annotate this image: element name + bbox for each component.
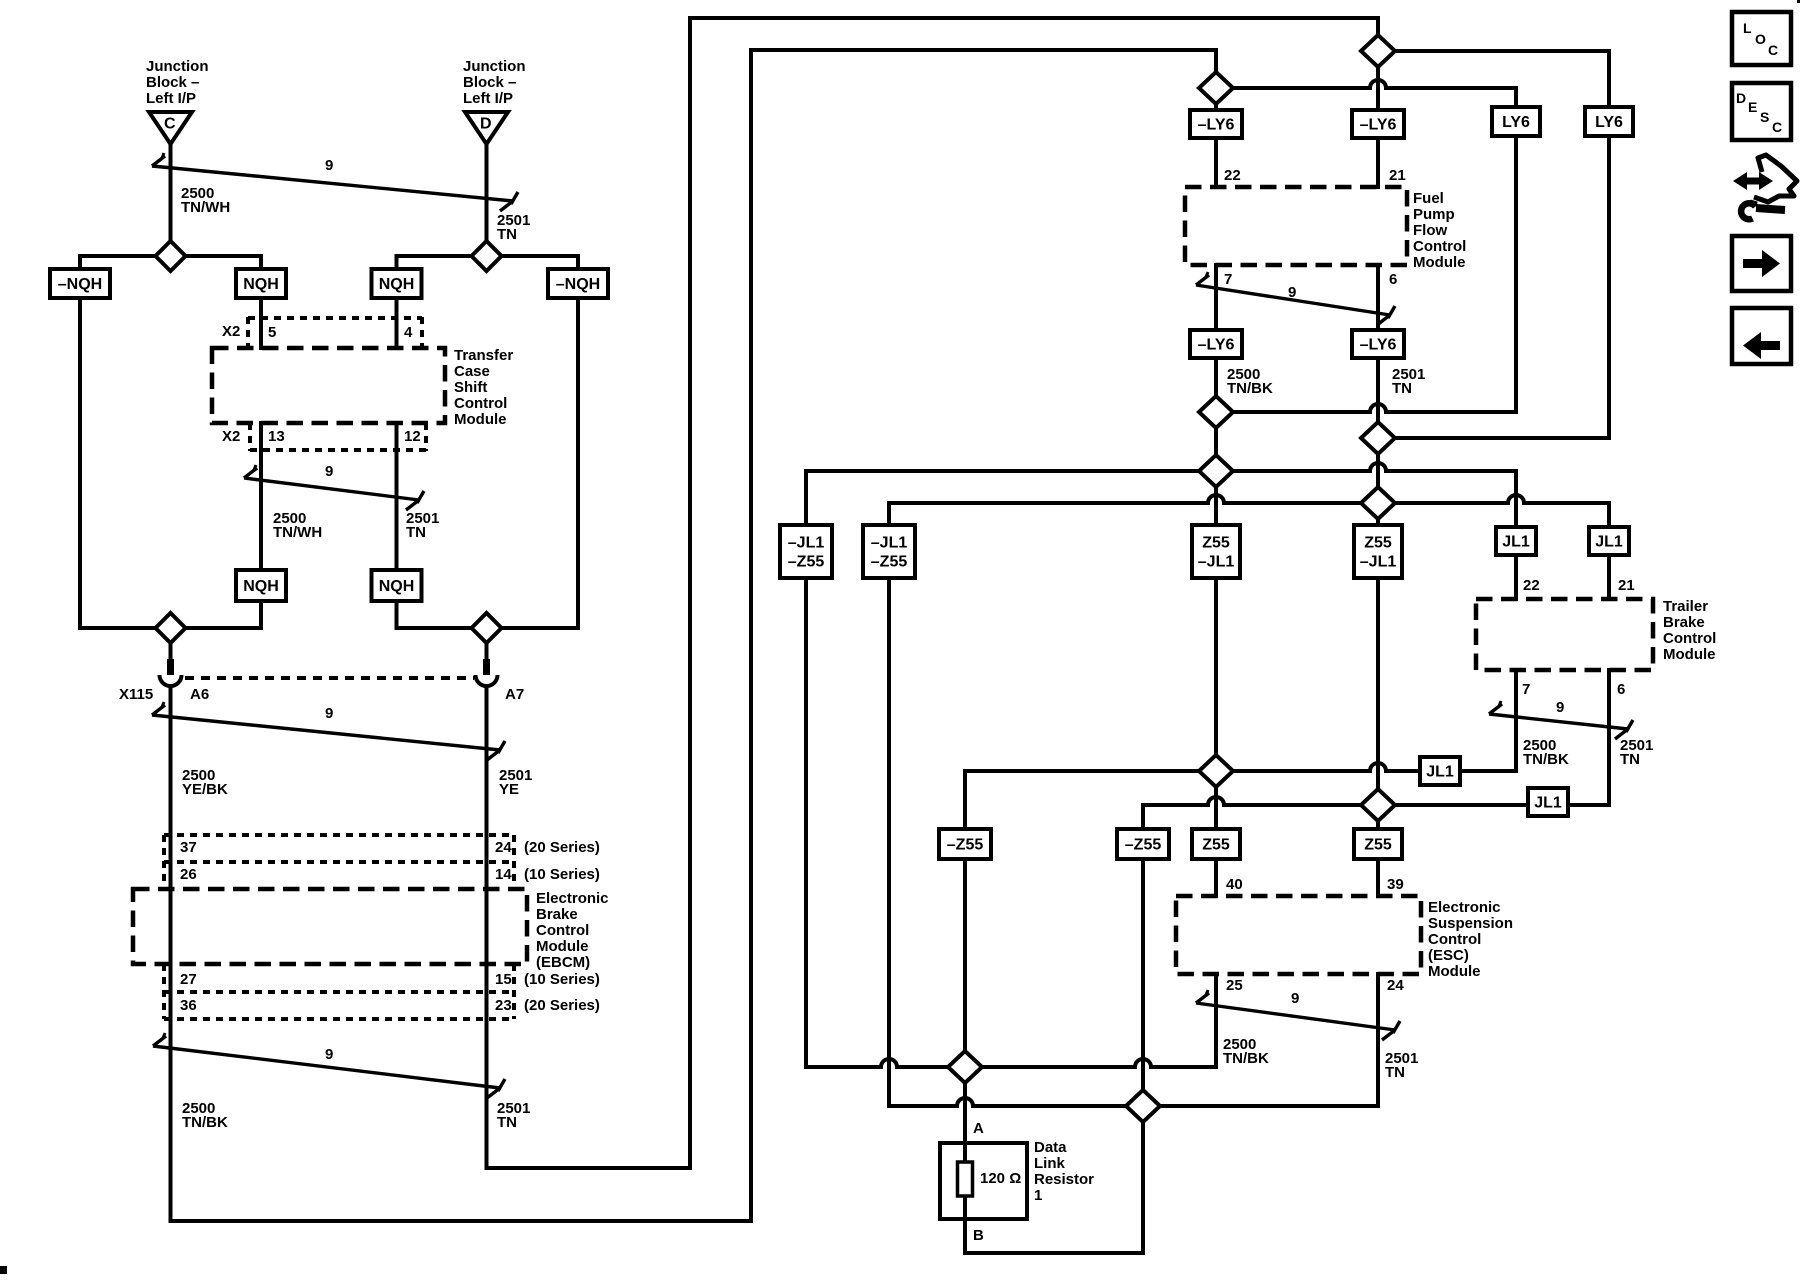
svg-text:Left I/P: Left I/P bbox=[146, 90, 196, 107]
svg-text:Control: Control bbox=[1428, 931, 1481, 948]
svg-text:Z55: Z55 bbox=[1202, 535, 1230, 552]
option box -LY6 a bbox=[1190, 110, 1242, 138]
option box NQH 2 bbox=[372, 269, 422, 298]
inline connector X115 terminal A7 bbox=[483, 659, 490, 675]
wire JL1 riser a bbox=[1514, 471, 1518, 527]
option box Z55 a bbox=[1192, 829, 1240, 859]
wire A6 down to EBCM bbox=[169, 686, 173, 1221]
svg-text:22: 22 bbox=[1523, 577, 1540, 594]
svg-text:Module: Module bbox=[1663, 646, 1716, 663]
wire Z55/JL1 a drop to Z55 bbox=[1214, 578, 1218, 829]
svg-text:9: 9 bbox=[325, 463, 333, 480]
svg-text:12: 12 bbox=[404, 428, 421, 445]
inline connector X115 terminal A6 bbox=[167, 659, 174, 675]
svg-text:Left I/P: Left I/P bbox=[463, 90, 513, 107]
svg-text:–Z55: –Z55 bbox=[947, 837, 984, 854]
twisted pair symbol 9 (ESC) bbox=[1196, 1003, 1395, 1030]
svg-text:Control: Control bbox=[1413, 238, 1466, 255]
svg-text:14: 14 bbox=[495, 866, 512, 883]
svg-text:E: E bbox=[1748, 99, 1757, 115]
svg-text:22: 22 bbox=[1224, 167, 1241, 184]
splice diamond R3 bbox=[1199, 396, 1233, 428]
wire -Z55 a drop to splice R9 bbox=[963, 859, 967, 1143]
svg-text:Shift: Shift bbox=[454, 379, 487, 396]
page corner mark top-right bbox=[1797, 0, 1800, 3]
svg-text:–LY6: –LY6 bbox=[1198, 337, 1235, 354]
svg-text:Case: Case bbox=[454, 363, 490, 380]
svg-text:120 Ω: 120 Ω bbox=[980, 1170, 1021, 1187]
back arrow button bbox=[1732, 308, 1791, 364]
electronic suspension control module box bbox=[1176, 896, 1421, 974]
wire trailer pin 7 down bbox=[1514, 670, 1518, 771]
svg-text:Electronic: Electronic bbox=[1428, 899, 1501, 916]
svg-text:26: 26 bbox=[180, 866, 197, 883]
svg-text:TN/BK: TN/BK bbox=[1223, 1050, 1269, 1067]
splice diamond R1 bbox=[1361, 35, 1395, 67]
option box -LY6 d bbox=[1352, 330, 1404, 358]
svg-text:A7: A7 bbox=[505, 686, 524, 703]
wire NQH2 to transfer case pin 4 bbox=[395, 298, 399, 348]
option box -JL1 -Z55 b bbox=[863, 525, 915, 578]
svg-text:Flow: Flow bbox=[1413, 222, 1447, 239]
svg-text:YE/BK: YE/BK bbox=[182, 781, 228, 798]
wire bus y805 bbox=[1143, 803, 1208, 807]
junction block triangle C bbox=[149, 112, 192, 144]
svg-text:Control: Control bbox=[1663, 630, 1716, 647]
wire ESC pin 25 down bbox=[1214, 974, 1218, 1067]
option box -NQH right bbox=[548, 269, 608, 298]
svg-text:9: 9 bbox=[1288, 284, 1296, 301]
svg-text:1: 1 bbox=[1034, 1187, 1042, 1204]
svg-text:40: 40 bbox=[1226, 876, 1243, 893]
merge bus y628 right bbox=[397, 626, 579, 630]
svg-text:L: L bbox=[1743, 20, 1752, 36]
hotlink icon squiggle arrow bbox=[1754, 155, 1797, 202]
wire ESC pin 40 bbox=[1214, 859, 1218, 896]
wire bus y1067 bbox=[806, 1065, 881, 1069]
svg-text:6: 6 bbox=[1389, 271, 1397, 288]
splice diamond R8 bbox=[1361, 789, 1395, 821]
wire JL1 b to trailer pin 21 bbox=[1607, 555, 1611, 599]
svg-text:9: 9 bbox=[325, 705, 333, 722]
wire top bus 2501 bbox=[690, 16, 1378, 20]
trailer brake control module box bbox=[1476, 599, 1653, 670]
page corner mark bbox=[0, 1266, 7, 1274]
LOC button bbox=[1732, 12, 1791, 65]
twisted pair symbol 9 (top) bbox=[152, 166, 513, 201]
splice diamond R9 bbox=[948, 1051, 982, 1083]
svg-text:YE: YE bbox=[499, 781, 519, 798]
resistor element 120 ohm bbox=[958, 1162, 973, 1196]
option box NQH 4 bbox=[372, 570, 422, 601]
svg-text:TN: TN bbox=[497, 226, 517, 243]
svg-text:S: S bbox=[1760, 109, 1769, 125]
svg-text:Fuel: Fuel bbox=[1413, 190, 1444, 207]
svg-text:TN/BK: TN/BK bbox=[1523, 751, 1569, 768]
svg-text:Brake: Brake bbox=[536, 906, 578, 923]
svg-text:6: 6 bbox=[1617, 681, 1625, 698]
svg-text:Z55: Z55 bbox=[1364, 535, 1392, 552]
EBCM pin strip row 27/15 and 36/23 bbox=[164, 990, 514, 994]
wire splice R3 to LY6 a riser bbox=[1216, 410, 1370, 414]
wire split bus at y256 left bbox=[80, 254, 261, 258]
svg-text:5: 5 bbox=[268, 324, 276, 341]
svg-text:23: 23 bbox=[495, 997, 512, 1014]
wire -Z55 a stub bbox=[963, 771, 967, 829]
wire resistor B to splice R10 bbox=[963, 1219, 967, 1253]
wire bus y771 bbox=[965, 769, 1370, 773]
option box Z55 -JL1 b bbox=[1354, 525, 1402, 578]
svg-text:O: O bbox=[1755, 31, 1766, 47]
option box -JL1 -Z55 a bbox=[780, 525, 832, 578]
wire diamond to X115 pin A7 bbox=[485, 643, 489, 660]
splice diamond below D bbox=[472, 241, 502, 271]
svg-text:Control: Control bbox=[454, 395, 507, 412]
svg-text:9: 9 bbox=[1291, 990, 1299, 1007]
wire 2501 TN from D bbox=[485, 144, 489, 241]
svg-text:LY6: LY6 bbox=[1595, 114, 1623, 131]
twisted pair symbol 9 (trailer) bbox=[1489, 714, 1628, 729]
svg-text:C: C bbox=[164, 116, 176, 133]
option box -LY6 b bbox=[1352, 110, 1404, 138]
option box Z55 -JL1 a bbox=[1192, 525, 1240, 578]
inline option box JL1 d bbox=[1528, 788, 1568, 816]
merge bus y628 left bbox=[80, 626, 261, 630]
svg-text:21: 21 bbox=[1618, 577, 1635, 594]
svg-text:–LY6: –LY6 bbox=[1198, 117, 1235, 134]
svg-text:NQH: NQH bbox=[379, 578, 415, 595]
svg-text:36: 36 bbox=[180, 997, 197, 1014]
svg-text:NQH: NQH bbox=[243, 578, 279, 595]
wire fuel pin 6 down bbox=[1376, 265, 1380, 330]
wire stub into NQH 2 bbox=[395, 256, 399, 271]
wire 2501 bottom run to right bbox=[487, 1166, 691, 1170]
wire diamond R1 to LY6 right bbox=[1378, 49, 1609, 53]
wire A7 down to EBCM bbox=[485, 686, 489, 1168]
svg-text:C: C bbox=[1768, 42, 1778, 58]
transfer case X2 top pin strip bbox=[248, 316, 422, 320]
splice diamond above A7 bbox=[472, 613, 502, 643]
wire 2501 riser bbox=[688, 18, 692, 1168]
hotlink icon wrench bbox=[1756, 208, 1785, 210]
junction block triangle D bbox=[465, 112, 508, 144]
svg-text:TN: TN bbox=[1385, 1064, 1405, 1081]
twisted pair symbol 9 (EBCM) bbox=[153, 1046, 500, 1088]
wire transfer case pin 13 down bbox=[259, 423, 263, 570]
svg-text:21: 21 bbox=[1389, 167, 1406, 184]
svg-text:NQH: NQH bbox=[243, 276, 279, 293]
svg-text:–JL1: –JL1 bbox=[788, 535, 825, 552]
svg-text:37: 37 bbox=[180, 839, 197, 856]
wire -NQH right branch down bbox=[576, 298, 580, 628]
svg-text:LY6: LY6 bbox=[1502, 114, 1530, 131]
svg-text:13: 13 bbox=[268, 428, 285, 445]
option box JL1 b bbox=[1589, 527, 1629, 555]
wire diamond R2 to LY6 left bbox=[1216, 86, 1370, 90]
svg-text:Resistor: Resistor bbox=[1034, 1171, 1094, 1188]
option box Z55 b bbox=[1354, 829, 1402, 859]
svg-text:TN/WH: TN/WH bbox=[273, 524, 322, 541]
svg-text:24: 24 bbox=[1387, 977, 1404, 994]
svg-text:–NQH: –NQH bbox=[58, 276, 102, 293]
wire transfer case pin 12 down bbox=[395, 423, 399, 570]
svg-text:Suspension: Suspension bbox=[1428, 915, 1513, 932]
wire 2500 riser bbox=[749, 50, 753, 1221]
wire ESC pin 39 bbox=[1376, 859, 1380, 896]
svg-text:(ESC): (ESC) bbox=[1428, 947, 1469, 964]
svg-text:Module: Module bbox=[1428, 963, 1481, 980]
option box NQH 3 bbox=[236, 570, 286, 601]
svg-text:24: 24 bbox=[495, 839, 512, 856]
wire -Z55/-JL1 b long drop bbox=[887, 578, 891, 1106]
svg-text:TN/BK: TN/BK bbox=[1227, 380, 1273, 397]
splice diamond below C bbox=[156, 241, 186, 271]
svg-text:Transfer: Transfer bbox=[454, 347, 513, 364]
wire -JL1-Z55 stub b bbox=[887, 503, 891, 525]
wire -LY6 d down to splices bbox=[1376, 358, 1380, 525]
splice diamond R6 bbox=[1361, 487, 1395, 519]
svg-text:Junction: Junction bbox=[463, 58, 526, 75]
svg-text:9: 9 bbox=[325, 1046, 333, 1063]
wire fuel pump pin 22 bbox=[1214, 138, 1218, 187]
svg-text:Z55: Z55 bbox=[1202, 837, 1230, 854]
svg-text:Module: Module bbox=[536, 938, 589, 955]
svg-text:–LY6: –LY6 bbox=[1360, 337, 1397, 354]
svg-text:A6: A6 bbox=[190, 686, 209, 703]
svg-text:X115: X115 bbox=[119, 686, 153, 703]
svg-text:9: 9 bbox=[325, 157, 333, 174]
wire 2500 bottom run to right bbox=[171, 1219, 752, 1223]
svg-text:–Z55: –Z55 bbox=[788, 554, 825, 571]
svg-text:TN: TN bbox=[1620, 751, 1640, 768]
twisted pair symbol 9 (X115) bbox=[152, 715, 500, 750]
wire bus y1106 bbox=[889, 1104, 957, 1108]
svg-text:Pump: Pump bbox=[1413, 206, 1455, 223]
svg-text:Trailer: Trailer bbox=[1663, 598, 1708, 615]
svg-text:–NQH: –NQH bbox=[556, 276, 600, 293]
option box NQH 1 bbox=[236, 269, 286, 298]
option box -Z55 a bbox=[939, 829, 991, 859]
svg-text:(20 Series): (20 Series) bbox=[524, 997, 600, 1014]
hotlink icon double arrow bbox=[1733, 172, 1773, 190]
wire 2500 TN/WH from C bbox=[169, 144, 173, 241]
svg-text:JL1: JL1 bbox=[1595, 534, 1623, 551]
svg-text:TN/WH: TN/WH bbox=[181, 199, 230, 216]
svg-text:9: 9 bbox=[1556, 699, 1564, 716]
svg-text:X2: X2 bbox=[222, 323, 240, 340]
svg-text:TN: TN bbox=[406, 524, 426, 541]
wire splice R5 bus bbox=[806, 469, 1370, 473]
svg-text:39: 39 bbox=[1387, 876, 1404, 893]
wire fuel pump pin 21 bbox=[1376, 138, 1380, 187]
splice diamond R2 bbox=[1199, 72, 1233, 104]
wire -LY6 c down to splices bbox=[1214, 358, 1218, 525]
svg-text:TN/BK: TN/BK bbox=[182, 1114, 228, 1131]
svg-text:Data: Data bbox=[1034, 1139, 1067, 1156]
splice diamond R7 bbox=[1199, 755, 1233, 787]
wire JL1 a to trailer pin 22 bbox=[1514, 555, 1518, 599]
option box JL1 a bbox=[1496, 527, 1536, 555]
data link resistor 1 box bbox=[940, 1143, 1027, 1219]
svg-text:–JL1: –JL1 bbox=[1360, 554, 1397, 571]
wire -Z55 b stub bbox=[1141, 805, 1145, 829]
svg-text:X2: X2 bbox=[222, 428, 240, 445]
svg-text:(10 Series): (10 Series) bbox=[524, 971, 600, 988]
wire ESC pin 24 down bbox=[1376, 974, 1380, 1106]
fuel pump flow control module box bbox=[1185, 187, 1407, 265]
wire -Z55/-JL1 a long drop bbox=[804, 578, 808, 1067]
svg-text:(10 Series): (10 Series) bbox=[524, 866, 600, 883]
svg-text:Junction: Junction bbox=[146, 58, 209, 75]
svg-text:A: A bbox=[973, 1120, 984, 1137]
wire split bus at y256 right bbox=[397, 254, 579, 258]
svg-text:NQH: NQH bbox=[379, 276, 415, 293]
svg-text:(20 Series): (20 Series) bbox=[524, 839, 600, 856]
svg-text:27: 27 bbox=[180, 971, 197, 988]
inline option box JL1 c bbox=[1420, 757, 1460, 785]
svg-text:D: D bbox=[1736, 90, 1746, 106]
svg-text:25: 25 bbox=[1226, 977, 1243, 994]
splice diamond R5 bbox=[1199, 455, 1233, 487]
svg-text:–JL1: –JL1 bbox=[871, 535, 908, 552]
svg-text:–Z55: –Z55 bbox=[1125, 837, 1162, 854]
svg-text:D: D bbox=[480, 116, 492, 133]
wire NQH1 to transfer case pin 5 bbox=[259, 298, 263, 348]
svg-text:TN: TN bbox=[497, 1114, 517, 1131]
splice diamond R10 bbox=[1126, 1090, 1160, 1122]
option box -Z55 b bbox=[1117, 829, 1169, 859]
svg-text:4: 4 bbox=[404, 324, 413, 341]
svg-text:–Z55: –Z55 bbox=[871, 554, 908, 571]
EBCM module box bbox=[133, 889, 527, 964]
option box LY6 b bbox=[1585, 107, 1633, 136]
transfer case X2 bottom pin strip bbox=[250, 448, 426, 452]
svg-text:B: B bbox=[973, 1227, 984, 1244]
svg-text:Link: Link bbox=[1034, 1155, 1065, 1172]
svg-text:TN: TN bbox=[1392, 380, 1412, 397]
svg-text:–LY6: –LY6 bbox=[1360, 117, 1397, 134]
wire -Z55 b drop to splice R10 bbox=[1141, 859, 1145, 1253]
DESC button bbox=[1732, 83, 1791, 140]
wire fuel pin 7 down bbox=[1214, 265, 1218, 330]
option box LY6 a bbox=[1492, 107, 1540, 136]
svg-text:JL1: JL1 bbox=[1534, 795, 1562, 812]
svg-text:JL1: JL1 bbox=[1502, 534, 1530, 551]
option box -LY6 c bbox=[1190, 330, 1242, 358]
wire through resistor bbox=[963, 1143, 967, 1219]
wire Z55/JL1 b drop to Z55 bbox=[1376, 578, 1380, 829]
svg-text:(EBCM): (EBCM) bbox=[536, 954, 590, 971]
wire top bus 2500 bbox=[751, 48, 1216, 52]
svg-text:Block –: Block – bbox=[463, 74, 516, 91]
svg-text:15: 15 bbox=[495, 971, 512, 988]
splice diamond above A6 bbox=[156, 613, 186, 643]
svg-text:7: 7 bbox=[1224, 271, 1232, 288]
wire NQH3 down bbox=[259, 601, 263, 628]
X115 connector dashed boundary bbox=[185, 676, 474, 680]
svg-text:Block –: Block – bbox=[146, 74, 199, 91]
EBCM pin strip row 37/24 bbox=[164, 833, 514, 837]
svg-text:Brake: Brake bbox=[1663, 614, 1705, 631]
wire into -LY6 b bbox=[1376, 67, 1380, 110]
wire into -LY6 a bbox=[1214, 104, 1218, 110]
wire -NQH left branch down bbox=[78, 298, 82, 628]
wire diamond to X115 pin A6 bbox=[169, 643, 173, 660]
wire stub into NQH 1 bbox=[259, 256, 263, 271]
wire stub into -NQH left bbox=[78, 256, 82, 271]
twisted pair symbol 9 (transfer case) bbox=[244, 478, 419, 500]
svg-text:Z55: Z55 bbox=[1364, 837, 1392, 854]
transfer case shift control module box bbox=[212, 348, 445, 423]
wire JL1 riser b bbox=[1607, 503, 1611, 527]
svg-text:Electronic: Electronic bbox=[536, 890, 609, 907]
svg-text:JL1: JL1 bbox=[1426, 764, 1454, 781]
wire -JL1-Z55 stub a bbox=[804, 471, 808, 525]
svg-text:C: C bbox=[1772, 119, 1782, 135]
wire splice R4 to LY6 b riser bbox=[1378, 436, 1609, 440]
svg-text:7: 7 bbox=[1522, 681, 1530, 698]
wire trailer pin 6 down bbox=[1607, 670, 1611, 805]
wire NQH4 down bbox=[395, 601, 399, 628]
option box -NQH left bbox=[50, 269, 110, 298]
wire stub into -NQH right bbox=[576, 256, 580, 271]
svg-text:Control: Control bbox=[536, 922, 589, 939]
forward arrow button bbox=[1732, 236, 1791, 291]
twisted pair symbol 9 (fuel pump) bbox=[1196, 285, 1390, 315]
splice diamond R4 bbox=[1361, 422, 1395, 454]
svg-text:Module: Module bbox=[454, 411, 507, 428]
svg-text:–JL1: –JL1 bbox=[1198, 554, 1235, 571]
svg-text:Module: Module bbox=[1413, 254, 1466, 271]
wire splice R6 bus bbox=[889, 501, 1208, 505]
